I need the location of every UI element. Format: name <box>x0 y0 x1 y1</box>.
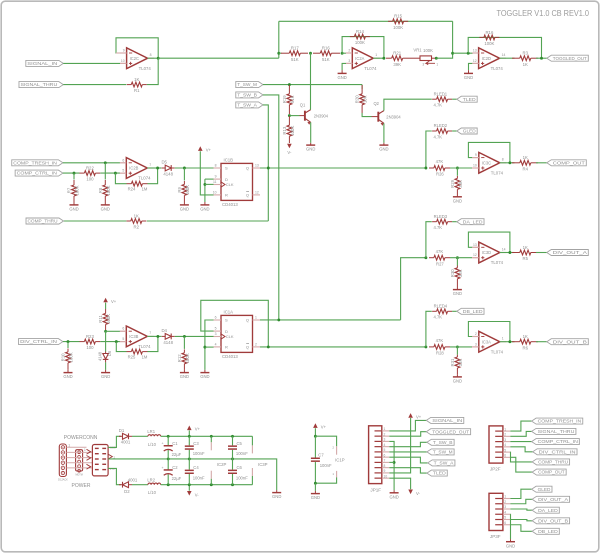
svg-text:R6: R6 <box>523 345 529 350</box>
svg-text:1K: 1K <box>134 213 139 218</box>
wire R26 to IC3C + input <box>450 167 472 169</box>
flip-flop IC1B CD4013 <box>221 163 253 200</box>
svg-text:51K: 51K <box>322 57 330 62</box>
svg-text:100nF: 100nF <box>193 475 205 480</box>
wire D5 to IC1B set <box>175 167 214 169</box>
transistor Q2 2N3904 <box>372 116 379 118</box>
node R12 tap <box>183 335 186 338</box>
op-amp IC3A TL074 <box>479 331 500 352</box>
svg-text:100K: 100K <box>106 314 111 324</box>
svg-text:LR2: LR2 <box>147 478 155 483</box>
connector JP2F <box>489 426 503 463</box>
svg-text:R17: R17 <box>291 46 299 51</box>
svg-text:6: 6 <box>215 316 217 320</box>
net label COMP_OUT <box>547 160 587 166</box>
wire JP1F pin10 to V- <box>389 478 410 489</box>
wire JP2F pin6 to COMP_OUT <box>510 457 532 472</box>
op-amp IC3B TL074 <box>126 326 147 347</box>
svg-text:C7: C7 <box>318 452 324 457</box>
svg-text:D: D <box>225 329 228 334</box>
svg-text:14: 14 <box>502 247 506 251</box>
svg-text:VR1: VR1 <box>413 48 422 53</box>
svg-text:V+: V+ <box>416 414 422 419</box>
resistor R20 10K <box>361 85 363 89</box>
ground R7 <box>70 204 79 206</box>
svg-text:JP3F: JP3F <box>490 534 501 539</box>
potentiometer VR1 100K <box>409 57 420 59</box>
wire JP2F pin3 to COMP_CTRL_IN <box>510 441 531 443</box>
net label T_SW_M <box>236 82 263 88</box>
svg-text:2: 2 <box>255 343 257 347</box>
ground R10 <box>64 372 73 374</box>
svg-text:2N3904: 2N3904 <box>386 114 401 119</box>
wire R25 feedback loop <box>116 342 126 352</box>
node IC3D output junction <box>508 251 511 254</box>
svg-text:GND: GND <box>453 198 462 203</box>
svg-text:IC3D: IC3D <box>482 250 491 255</box>
svg-text:Q1: Q1 <box>300 102 306 107</box>
net label SIGNAL_IN <box>26 60 63 66</box>
op-amp IC3C TL074 <box>479 152 500 173</box>
svg-text:13: 13 <box>473 49 477 53</box>
inductor LR2 L/10 <box>132 484 148 486</box>
wire IC2C output <box>148 57 159 59</box>
svg-text:D2: D2 <box>124 489 130 494</box>
power V+ above C7 <box>313 423 318 428</box>
svg-text:6: 6 <box>122 158 124 162</box>
svg-text:D1: D1 <box>119 428 125 433</box>
svg-text:V+: V+ <box>195 427 201 432</box>
node R16 feedback tap <box>467 52 470 55</box>
wire R3 to TOGGLED_OUT <box>536 57 547 59</box>
resistor R4 1K <box>512 162 520 164</box>
wire R2 to COMP_THRU <box>64 220 127 222</box>
svg-text:Q: Q <box>246 318 249 323</box>
svg-text:100K: 100K <box>75 185 80 195</box>
net label T_SW_M at JP1F <box>427 449 454 455</box>
ground R12 <box>180 372 189 374</box>
svg-text:11: 11 <box>213 180 217 184</box>
wire block to D1 <box>108 436 121 447</box>
svg-text:3: 3 <box>348 59 350 63</box>
svg-text:3: 3 <box>422 62 424 66</box>
wire R4 to COMP_OUT <box>536 162 547 164</box>
svg-text:22µF: 22µF <box>172 476 182 481</box>
wire JP1F pin6 to T_SW_A <box>389 457 427 463</box>
svg-text:POWERCONN: POWERCONN <box>64 435 98 441</box>
svg-text:100nF: 100nF <box>236 475 248 480</box>
svg-text:Q: Q <box>246 193 249 198</box>
wire block to D2 <box>108 468 121 484</box>
ground R9 <box>180 204 189 206</box>
wire Q1 emitter to ground <box>310 122 312 143</box>
svg-text:7: 7 <box>149 331 151 335</box>
ground R29 <box>453 196 462 198</box>
svg-text:1K: 1K <box>523 245 528 250</box>
net label COMP_THRU <box>26 218 63 224</box>
ground IC2D + input <box>464 72 473 74</box>
svg-text:L/10: L/10 <box>148 490 157 495</box>
power V+ symbol on rail <box>187 426 192 431</box>
svg-text:IC1A: IC1A <box>224 309 234 314</box>
svg-text:R4: R4 <box>523 166 529 171</box>
wire R23 to IC3B + input <box>100 341 120 343</box>
capacitor C6 100nF <box>232 459 234 470</box>
resistor R30 33K <box>456 258 458 266</box>
wire to IC2D - input <box>453 52 473 54</box>
node IC1B D/CLK junction <box>203 183 206 186</box>
resistor RLED4 4.7K <box>426 311 432 347</box>
wire IC1A Q-bar output line <box>260 346 426 348</box>
svg-text:IC2P: IC2P <box>217 462 227 467</box>
power V+ to IC1B reset <box>198 146 203 151</box>
wire RLED3 to DA_LED <box>452 221 457 223</box>
svg-text:14: 14 <box>502 53 506 57</box>
svg-text:R20: R20 <box>355 95 360 103</box>
connector MOTM header <box>76 450 83 471</box>
svg-text:TL074: TL074 <box>491 349 504 354</box>
svg-text:100K: 100K <box>484 41 494 46</box>
ground IC1B D/CLK <box>200 204 209 206</box>
ground R8 <box>101 204 110 206</box>
net label TOGGLED_OUT at JP1F <box>426 429 470 435</box>
svg-text:R2: R2 <box>134 225 140 230</box>
node JP1F pin7 ground junction <box>393 461 396 464</box>
svg-text:100K: 100K <box>423 48 433 53</box>
svg-text:8: 8 <box>215 164 217 168</box>
wire R16 feedback loop of IC2D <box>468 37 541 58</box>
wire R20 to Q2 base <box>362 113 371 117</box>
svg-text:TOGGLED_OUT: TOGGLED_OUT <box>553 56 587 61</box>
wire IC2D + input to ground <box>469 63 473 70</box>
node R10 tap <box>67 340 70 343</box>
svg-text:10: 10 <box>121 59 125 63</box>
wire IC3A feedback loop <box>468 322 510 342</box>
node T_SW_B / Q junction <box>277 318 280 321</box>
wires DC jack to power block <box>66 451 92 453</box>
node R7 tap <box>73 172 76 175</box>
svg-text:R1: R1 <box>134 88 140 93</box>
net label T_SW_A <box>236 102 263 108</box>
wire JP3F pin1 to GLED <box>510 489 531 498</box>
net label TLED at JP1F <box>427 470 447 476</box>
svg-text:COMP_CTRL_IN: COMP_CTRL_IN <box>17 171 57 176</box>
wire JP2F pin1 to COMP_TRESH_IN <box>510 421 531 431</box>
node R8 tap <box>104 161 107 164</box>
svg-text:COMP_OUT: COMP_OUT <box>553 160 586 165</box>
net label TLED <box>457 96 477 102</box>
wire IC1A S and R pins to ground <box>205 320 214 370</box>
wire IC1A D to Q-bar loop <box>201 300 268 347</box>
node IC2B + input junction <box>114 172 117 175</box>
svg-text:2N3904: 2N3904 <box>314 113 329 118</box>
wire SIGNAL_THRU to R1 <box>63 84 126 86</box>
node TOGGLED_OUT junction <box>540 57 543 60</box>
wire IC1P power loop <box>315 436 336 446</box>
node T_SW_A / Q junction <box>267 167 270 170</box>
resistor R15 100K <box>388 20 393 22</box>
wire JP1F pin2 to TOGGLED_OUT <box>389 432 426 436</box>
svg-text:V+: V+ <box>111 299 117 304</box>
svg-text:COMP_TRESH_IN: COMP_TRESH_IN <box>13 160 57 165</box>
svg-text:TL074: TL074 <box>138 344 151 349</box>
svg-text:R16: R16 <box>485 30 493 35</box>
svg-text:C5: C5 <box>237 441 243 446</box>
ground IC2A + input <box>338 72 347 74</box>
resistor R27 47K <box>429 257 434 259</box>
svg-text:R22: R22 <box>86 166 94 171</box>
resistor R12 100K <box>183 336 185 349</box>
wire COMP_CTRL_IN to R22 <box>63 172 80 174</box>
svg-text:D4: D4 <box>161 328 167 333</box>
wire JP1F pin5 to T_SW_M <box>389 451 427 453</box>
ground R30 <box>453 289 462 291</box>
svg-text:12: 12 <box>473 59 477 63</box>
svg-text:R12: R12 <box>177 354 182 362</box>
svg-text:6: 6 <box>122 327 124 331</box>
net label DA_LED at JP3F <box>532 507 559 513</box>
node R19 top junction <box>288 83 291 86</box>
net label T_SW_B <box>236 92 263 98</box>
svg-text:GND: GND <box>180 374 189 379</box>
svg-text:CD4013: CD4013 <box>222 354 238 359</box>
resistor R2 1K <box>126 220 131 222</box>
wire T_SW_B column to IC1A Q <box>263 95 279 320</box>
svg-text:R15: R15 <box>394 14 402 19</box>
svg-text:DIV_OUT_B: DIV_OUT_B <box>553 339 587 344</box>
svg-text:9: 9 <box>123 49 125 53</box>
resistor R21 39K <box>386 57 392 59</box>
svg-text:S: S <box>225 318 228 323</box>
svg-text:DIV_OUT_A: DIV_OUT_A <box>538 497 568 502</box>
resistor RLED2 4.7K <box>426 131 432 168</box>
wire JP2F pin2 to SIGNAL_THRU <box>510 431 531 436</box>
svg-text:R24: R24 <box>128 187 136 192</box>
svg-text:R13: R13 <box>282 126 287 134</box>
node IC3C + input junction <box>456 167 459 170</box>
svg-text:R31: R31 <box>450 358 455 366</box>
svg-text:100K: 100K <box>355 40 365 45</box>
node IC3A output junction <box>508 340 511 343</box>
svg-text:C6: C6 <box>237 465 243 470</box>
svg-text:8: 8 <box>502 158 504 162</box>
svg-text:39K: 39K <box>393 62 401 67</box>
svg-text:GND: GND <box>180 207 189 212</box>
svg-text:R: R <box>225 193 228 198</box>
svg-text:V+: V+ <box>206 148 212 153</box>
svg-text:Q: Q <box>246 166 249 171</box>
wire JP3F pin2 to DIV_OUT_A <box>510 499 532 503</box>
resistor R28 47K <box>429 346 434 348</box>
svg-text:GND: GND <box>101 374 110 379</box>
svg-text:CLK: CLK <box>226 334 234 339</box>
node C7 top junction <box>314 435 317 438</box>
svg-text:JP1F: JP1F <box>370 487 381 492</box>
svg-text:47K: 47K <box>436 159 444 164</box>
capacitor C1 22uF <box>167 436 169 445</box>
capacitor C5 100nF <box>232 436 234 445</box>
svg-text:1: 1 <box>255 316 257 320</box>
power V- below R13 <box>287 144 292 149</box>
svg-text:V-: V- <box>416 491 421 496</box>
svg-text:DCJACK: DCJACK <box>58 479 68 482</box>
svg-text:7: 7 <box>149 163 151 167</box>
svg-text:1M: 1M <box>142 187 148 192</box>
svg-text:R14: R14 <box>356 29 364 34</box>
resistor R11 100K <box>105 303 107 309</box>
svg-text:IC1B: IC1B <box>224 157 234 162</box>
wire to R17 <box>279 52 282 54</box>
svg-text:4: 4 <box>215 343 217 347</box>
net label COMP_CTRL_IN at JP2F <box>532 439 580 445</box>
svg-text:GND: GND <box>200 374 209 379</box>
wire IC3C feedback loop <box>468 142 510 162</box>
node V+ rail junction <box>167 435 170 438</box>
wire JP1F pin3 and pin7 to ground <box>389 441 394 490</box>
net label TOGGLED_OUT <box>547 55 589 61</box>
wire SIGNAL_IN to IC2C + input <box>63 62 120 64</box>
resistor R8 100K <box>104 163 106 180</box>
svg-text:100: 100 <box>86 177 94 182</box>
svg-text:R: R <box>225 345 228 350</box>
svg-text:GND: GND <box>311 495 320 500</box>
wire R27 to IC3D + input <box>450 257 472 259</box>
node V- rail junction <box>231 483 234 486</box>
svg-text:SIGNAL_THRU: SIGNAL_THRU <box>20 82 57 87</box>
wire to IC3B - input <box>106 330 120 332</box>
node IC3B + input junction <box>115 340 118 343</box>
net label DIV_OUT_B <box>547 339 589 345</box>
node Q1 base junction <box>288 114 291 117</box>
svg-text:R16: R16 <box>322 46 330 51</box>
svg-text:GND: GND <box>389 494 398 499</box>
net label GLED <box>457 128 477 134</box>
svg-text:TL074: TL074 <box>491 66 504 71</box>
resistor R29 33K <box>456 168 458 176</box>
svg-text:SIGNAL_IN: SIGNAL_IN <box>432 418 462 423</box>
power selection block <box>92 445 108 476</box>
wire JP2F pin5 to COMP_THRU <box>510 452 532 462</box>
wire IC2A output <box>373 57 384 59</box>
svg-text:10: 10 <box>473 164 477 168</box>
svg-text:RLED2: RLED2 <box>434 123 448 128</box>
wire R5 to DIV_OUT_A <box>536 252 547 254</box>
net label SIGNAL_IN at JP1F <box>426 417 463 423</box>
wire R6 to DIV_OUT_B <box>536 341 547 343</box>
node RLED3 tap <box>424 256 427 259</box>
svg-text:1M: 1M <box>142 355 148 360</box>
net label DIV_OUT_B at JP3F <box>532 518 569 524</box>
wire IC2C feedback loop <box>116 38 158 58</box>
svg-text:COMP_TRESH_IN: COMP_TRESH_IN <box>538 419 582 424</box>
svg-text:+: + <box>162 466 164 470</box>
node RLED2 tap <box>424 167 427 170</box>
svg-text:33K: 33K <box>458 269 463 277</box>
svg-text:POWER: POWER <box>72 483 91 489</box>
node R11/D6 junction <box>104 330 107 333</box>
svg-text:33K: 33K <box>458 180 463 188</box>
wire R24 to IC2B output <box>148 168 158 184</box>
node R17/R16 junction <box>309 52 312 55</box>
ground IC1A S/R <box>200 372 209 374</box>
svg-text:RLED4: RLED4 <box>434 304 448 309</box>
svg-text:C3: C3 <box>193 441 199 446</box>
wire to IC1B CLK pin <box>205 183 214 185</box>
op-amp IC2B TL074 <box>126 158 147 179</box>
ground power rail <box>272 492 281 494</box>
svg-text:DIV_OUT_A: DIV_OUT_A <box>553 250 587 255</box>
wire V- rail <box>161 484 253 486</box>
node C7 bottom junction <box>314 482 317 485</box>
svg-text:C1: C1 <box>172 441 178 446</box>
node IC3D + input junction <box>456 256 459 259</box>
net label COMP_TRESH_IN at JP2F <box>532 418 583 424</box>
power pins IC2P <box>210 436 212 442</box>
svg-text:T_SW_A: T_SW_A <box>434 461 454 466</box>
ground Q2 emitter <box>379 144 388 146</box>
wire RLED4 to DB_LED <box>452 310 457 312</box>
svg-text:RLED1: RLED1 <box>434 91 448 96</box>
ground D6 <box>101 372 110 374</box>
svg-text:IC3C: IC3C <box>482 160 491 165</box>
capacitor C4 100nF <box>188 459 190 470</box>
svg-text:R8: R8 <box>98 187 103 193</box>
net label COMP_TRESH_IN <box>12 160 63 166</box>
svg-text:CD4013: CD4013 <box>222 202 238 207</box>
wire T_SW_A column to COMP_THRU line <box>147 220 268 222</box>
op-amp IC2C TL074 <box>127 48 148 69</box>
node VR1 wiper junction <box>435 57 438 60</box>
net label SIGNAL_THRU at JP2F <box>532 428 576 434</box>
wire RLED2 to GLED <box>452 130 457 132</box>
svg-text:COMP_THRU: COMP_THRU <box>538 460 568 465</box>
capacitor C2 22uF <box>167 459 169 470</box>
svg-text:TLED: TLED <box>433 471 446 476</box>
svg-text:100K: 100K <box>106 185 111 195</box>
svg-text:D5: D5 <box>161 160 167 165</box>
svg-text:12: 12 <box>255 191 259 195</box>
net label DB_LED at JP3F <box>532 528 559 534</box>
svg-text:10: 10 <box>213 191 217 195</box>
svg-text:4.7K: 4.7K <box>433 103 442 108</box>
wire JP3F pin6 to DB_LED <box>510 525 532 532</box>
svg-text:TOGGLED_OUT: TOGGLED_OUT <box>432 429 469 434</box>
svg-text:GND: GND <box>337 75 346 80</box>
resistor R7 100K <box>73 173 75 179</box>
svg-text:DIV_CTRL_IN: DIV_CTRL_IN <box>20 339 57 344</box>
svg-text:GND: GND <box>69 207 78 212</box>
svg-text:GND: GND <box>464 75 473 80</box>
resistor R14 100K <box>350 36 355 38</box>
svg-text:COMP_THRU: COMP_THRU <box>28 219 58 224</box>
svg-text:4148: 4148 <box>163 340 173 345</box>
svg-text:GND: GND <box>379 147 388 152</box>
svg-text:IC3A: IC3A <box>482 339 491 344</box>
svg-text:33K: 33K <box>458 359 463 367</box>
node GND rail junction <box>188 457 191 460</box>
net label T_SW_A at JP1F <box>428 460 455 466</box>
node RLED4 tap <box>424 345 427 348</box>
svg-text:4.7K: 4.7K <box>433 315 442 320</box>
wire R1 to signal node <box>147 58 158 84</box>
wire JP3F pin5 to DIV_OUT_B <box>510 520 532 521</box>
svg-text:IC2D: IC2D <box>482 56 491 61</box>
op-amp IC3D TL074 <box>479 242 500 263</box>
power V- at JP1F <box>408 490 413 495</box>
net label SIGNAL_THRU <box>19 82 63 88</box>
wire R24 feedback loop <box>115 173 126 184</box>
wire JP1F pin1 to SIGNAL_IN <box>389 420 426 431</box>
